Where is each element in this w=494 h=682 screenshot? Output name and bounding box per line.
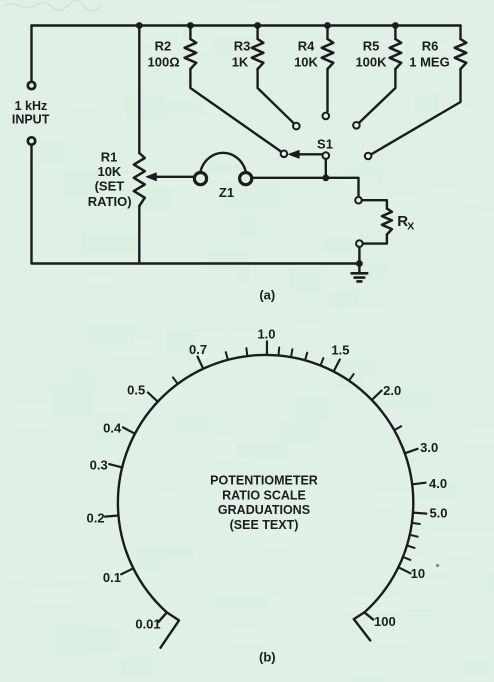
svg-text:0.4: 0.4 <box>103 421 122 436</box>
svg-text:GRADUATIONS: GRADUATIONS <box>218 503 310 517</box>
svg-text:1.0: 1.0 <box>257 327 275 342</box>
svg-text:INPUT: INPUT <box>12 112 50 126</box>
svg-text:(a): (a) <box>259 288 275 303</box>
svg-text:3.0: 3.0 <box>420 440 438 455</box>
svg-text:X: X <box>407 221 414 233</box>
svg-text:0.01: 0.01 <box>135 617 160 632</box>
svg-text:2.0: 2.0 <box>383 383 401 398</box>
svg-text:(SEE TEXT): (SEE TEXT) <box>230 518 299 532</box>
svg-text:0.2: 0.2 <box>87 511 105 526</box>
svg-text:RATIO SCALE: RATIO SCALE <box>222 488 306 502</box>
svg-text:0.3: 0.3 <box>90 458 108 473</box>
svg-text:R1: R1 <box>101 149 118 164</box>
svg-text:R4: R4 <box>298 39 315 54</box>
svg-text:1.5: 1.5 <box>331 343 349 358</box>
svg-text:1 MEG: 1 MEG <box>409 55 449 70</box>
svg-text:POTENTIOMETER: POTENTIOMETER <box>210 474 318 488</box>
svg-text:S1: S1 <box>317 137 333 152</box>
svg-text:R3: R3 <box>234 39 251 54</box>
svg-text:100K: 100K <box>355 55 387 70</box>
svg-text:(b): (b) <box>259 649 276 664</box>
svg-text:R2: R2 <box>155 39 172 54</box>
svg-text:0.7: 0.7 <box>189 342 207 357</box>
svg-text:RATIO): RATIO) <box>88 194 132 209</box>
svg-text:(SET: (SET <box>95 179 125 194</box>
svg-text:1K: 1K <box>232 55 249 70</box>
svg-text:10: 10 <box>411 566 425 581</box>
svg-text:R6: R6 <box>422 39 439 54</box>
svg-text:0.1: 0.1 <box>103 570 121 585</box>
svg-text:10K: 10K <box>294 55 318 70</box>
svg-text:100Ω: 100Ω <box>148 55 180 70</box>
svg-text:5.0: 5.0 <box>429 506 447 521</box>
svg-text:Z1: Z1 <box>219 185 234 200</box>
svg-text:0.5: 0.5 <box>127 383 145 398</box>
svg-text:100: 100 <box>374 614 396 629</box>
svg-text:10K: 10K <box>97 164 121 179</box>
svg-text:R5: R5 <box>363 39 380 54</box>
svg-text:4.0: 4.0 <box>429 476 447 491</box>
svg-text:1 kHz: 1 kHz <box>15 99 48 113</box>
